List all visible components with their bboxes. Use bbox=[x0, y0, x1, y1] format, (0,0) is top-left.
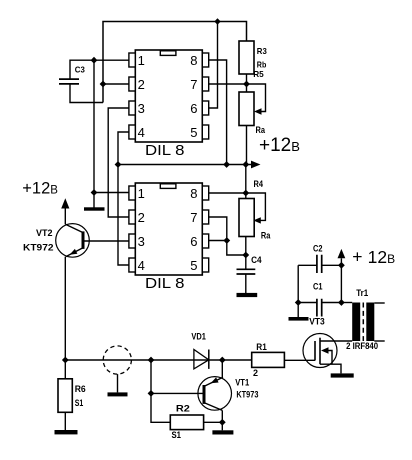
capacitor C4 bbox=[237, 269, 256, 274]
MOSFET VT3 source wire bbox=[320, 364, 341, 373]
node junction rail x226.6 bbox=[223, 161, 230, 168]
wire R4 vertical from rail to Ra2 top bbox=[245, 165, 247, 199]
svg-text:8: 8 bbox=[190, 53, 197, 68]
transistor VT1 collector diagonal bbox=[204, 403, 222, 411]
node junction C2 right bbox=[338, 262, 345, 269]
svg-text:4: 4 bbox=[138, 125, 145, 140]
svg-text:R5: R5 bbox=[253, 69, 264, 79]
transistor VT2 emitter arrow bbox=[70, 249, 78, 255]
resistor R1 bbox=[252, 352, 285, 367]
capacitor C1 bbox=[317, 299, 322, 317]
node junction above C4 bbox=[242, 252, 249, 259]
node junction bottom rail x151 bbox=[148, 357, 155, 364]
IC U2 pin 7 bbox=[202, 210, 208, 224]
+12V rail arrow bbox=[251, 161, 261, 169]
svg-text:C4: C4 bbox=[251, 255, 262, 265]
wire x151 down to R2 bbox=[151, 360, 170, 422]
svg-text:VD1: VD1 bbox=[191, 331, 206, 341]
IC U1 pin 4 bbox=[129, 125, 135, 139]
ground bar under VT3 source bbox=[331, 373, 354, 377]
capacitor C2 bbox=[317, 255, 322, 273]
wire C2 right to +12 vertical bbox=[322, 264, 342, 266]
IC U2 pin 5 bbox=[202, 258, 208, 272]
IC U2 DIL8 body bbox=[135, 183, 202, 275]
svg-text:Tr1: Tr1 bbox=[356, 288, 368, 298]
svg-text:6: 6 bbox=[190, 234, 197, 249]
wire bottom signal rail bbox=[65, 359, 251, 361]
MOSFET VT3 body arrow bbox=[321, 347, 329, 353]
wire secondary bottom stub bbox=[374, 340, 384, 342]
wire R2 to VT1 collector junction bbox=[204, 421, 223, 423]
microphone/jack dashed circle bbox=[103, 346, 131, 374]
wire C3 top plate to IC1 pin1 bbox=[70, 60, 129, 79]
IC U2 pin 4 bbox=[129, 258, 135, 272]
svg-text:VT1: VT1 bbox=[235, 377, 249, 387]
transistor VT1 circle bbox=[198, 377, 232, 411]
wire mic to ground bbox=[117, 374, 119, 392]
svg-text:KT972: KT972 bbox=[23, 242, 54, 252]
svg-text:C2: C2 bbox=[313, 243, 323, 253]
ground bar under C1/C2 bbox=[289, 317, 309, 321]
svg-text:KT973: KT973 bbox=[236, 390, 258, 400]
svg-text:2: 2 bbox=[253, 368, 258, 378]
transistor VT1 emitter arrow bbox=[211, 377, 219, 383]
transistor VT1 base bar bbox=[203, 385, 206, 404]
wire +12V arrow to VT2 collector bbox=[64, 209, 66, 225]
node junction top wire x217.5 bbox=[214, 18, 220, 24]
svg-text:R4: R4 bbox=[254, 179, 264, 189]
IC U1 pin 7 bbox=[202, 77, 208, 91]
wire IC1 pin4 down to IC2 pin4 through rail junction bbox=[118, 132, 129, 265]
ground bar under R6 bbox=[55, 430, 78, 434]
node junction bottom rail x65 bbox=[62, 357, 69, 364]
wire IC1 pin8 right then down to +12 rail bbox=[209, 60, 227, 165]
transistor VT2 base bar bbox=[82, 231, 85, 249]
ground bar under C4 bbox=[237, 293, 258, 297]
svg-text:5: 5 bbox=[190, 258, 197, 273]
node junction IC2 pin1 wire bbox=[91, 189, 98, 196]
potentiometer Ra (lower) bbox=[239, 199, 254, 237]
wire IC2 pin8 to R4 junction bbox=[209, 192, 246, 194]
svg-text:3: 3 bbox=[138, 101, 145, 116]
svg-text:Ra: Ra bbox=[256, 125, 266, 135]
IC U2 pin 6 bbox=[202, 234, 208, 248]
svg-text:3: 3 bbox=[138, 234, 145, 249]
svg-text:VT2: VT2 bbox=[36, 228, 53, 238]
ground bar under VT1 bbox=[212, 430, 233, 434]
wire C1 right bbox=[322, 302, 342, 304]
wire R6 to ground bbox=[64, 412, 66, 430]
wire +12V rail bbox=[118, 164, 252, 166]
node junction C1 right / transformer bbox=[338, 299, 345, 306]
IC U1 pin 6 bbox=[202, 101, 208, 115]
svg-text:6: 6 bbox=[190, 101, 197, 116]
wire C4 to ground bbox=[245, 274, 247, 293]
node junction VT1 base wire bbox=[148, 390, 155, 397]
svg-text:C3: C3 bbox=[75, 64, 85, 74]
svg-text:2: 2 bbox=[138, 77, 145, 92]
transistor VT1 emitter diagonal bbox=[204, 377, 223, 386]
wire R1 to VT3 gate bbox=[284, 359, 315, 361]
wire from top junction down to IC1 pin6 bbox=[209, 22, 218, 109]
svg-text:2 IRF840: 2 IRF840 bbox=[346, 341, 378, 351]
IC U2 pin 8 bbox=[202, 186, 208, 200]
node junction IC2 pin8 / Ra2 bbox=[242, 190, 249, 197]
IC U2 notch bbox=[160, 184, 176, 189]
svg-text:1: 1 bbox=[138, 186, 145, 201]
+12V up arrow right bbox=[338, 249, 346, 258]
wire vertical x94 from pin1 wire to IC2 pin1 and ground bbox=[94, 60, 129, 208]
MOSFET VT3 channel bar bbox=[319, 338, 321, 365]
wire VT1 collector to junction bbox=[221, 410, 223, 422]
IC U1 pin 2 bbox=[129, 77, 135, 91]
wire C2 left to vertical bbox=[298, 264, 317, 266]
svg-text:8: 8 bbox=[190, 186, 197, 201]
node junction under R3 bbox=[243, 81, 250, 88]
node junction pin2 wire x103 bbox=[100, 81, 107, 88]
resistor R3 bbox=[239, 41, 254, 74]
MOSFET VT3 circle bbox=[303, 334, 337, 368]
svg-text:1: 1 bbox=[138, 53, 145, 68]
node junction VT1 collector bbox=[219, 419, 226, 426]
svg-text:+12В: +12В bbox=[259, 135, 300, 156]
diode VD1 triangle bbox=[194, 350, 209, 369]
transformer Tr1 secondary winding bbox=[366, 303, 374, 342]
svg-text:C1: C1 bbox=[313, 282, 323, 292]
wire left vertical C2/C1 to ground bbox=[297, 265, 299, 317]
potentiometer Ra upper wiper arrow bbox=[254, 108, 262, 114]
transistor VT2 emitter diagonal bbox=[66, 248, 83, 257]
potentiometer Ra lower wiper arrow bbox=[253, 217, 260, 223]
svg-text:+: + bbox=[352, 247, 362, 267]
svg-text:S1: S1 bbox=[75, 398, 84, 408]
IC U2 pin 2 bbox=[129, 210, 135, 224]
svg-text:4: 4 bbox=[138, 258, 145, 273]
wire to VT1 base bbox=[151, 392, 204, 394]
diode VD1 cathode bar bbox=[208, 350, 210, 369]
svg-text:R6: R6 bbox=[75, 384, 86, 394]
wire Ra2 bottom to C4 junction bbox=[245, 237, 247, 270]
wire IC1 pin2 from x103 vertical bbox=[103, 83, 129, 85]
IC U2 pin 1 bbox=[129, 186, 135, 200]
wire +12V right vertical bbox=[340, 258, 342, 302]
svg-text:DIL 8: DIL 8 bbox=[145, 142, 185, 159]
svg-text:7: 7 bbox=[190, 210, 197, 225]
MOSFET VT3 drain wire to transformer bbox=[320, 340, 352, 342]
transistor VT2 collector diagonal bbox=[65, 224, 83, 232]
resistor R6 bbox=[58, 379, 72, 413]
wire C1 left bbox=[298, 302, 317, 304]
resistor R2 bbox=[170, 415, 203, 430]
transformer Tr1 core dashed bbox=[362, 303, 364, 342]
ground bar under mic bbox=[108, 392, 128, 396]
IC U1 pin 1 bbox=[129, 53, 135, 67]
svg-text:S1: S1 bbox=[172, 430, 182, 440]
wire R6 top stub bbox=[64, 360, 66, 379]
wire VT1 emitter up to rail bbox=[221, 360, 223, 377]
wire VT2 base to IC2 pin3 bbox=[83, 240, 129, 242]
wire R3 bottom to Ra top bbox=[246, 74, 248, 92]
wire IC1 pin7 to R3 bottom junction and tap of Ra bbox=[209, 84, 266, 112]
potentiometer Ra (upper) bbox=[239, 92, 254, 126]
IC U2 pin 3 bbox=[129, 234, 135, 248]
svg-text:R1: R1 bbox=[256, 342, 267, 352]
wire IC2 pin7 down and across to C4 junction bbox=[209, 217, 246, 255]
svg-text:R2: R2 bbox=[176, 404, 190, 414]
wire VT2 emitter down to bottom rail bbox=[64, 257, 66, 360]
wire Ra bottom to +12 rail bbox=[246, 126, 248, 165]
wire IC2 pin6 to vertical bbox=[209, 240, 227, 242]
node junction C1 left bbox=[295, 299, 302, 306]
svg-text:R3: R3 bbox=[257, 46, 267, 56]
svg-text:Ra: Ra bbox=[261, 231, 271, 241]
node junction after VD1 bbox=[219, 357, 226, 364]
MOSFET VT3 body link bbox=[328, 351, 332, 365]
IC U1 notch bbox=[160, 51, 176, 56]
wire VT1 collector junction to ground bbox=[221, 422, 223, 430]
node junction pin1 wire x94 bbox=[91, 57, 98, 64]
node junction rail x245.8 bbox=[242, 161, 249, 168]
node junction pin6/pin7 vertical bbox=[223, 237, 230, 244]
node junction rail x118 bbox=[115, 161, 122, 168]
transistor VT2 circle bbox=[56, 224, 90, 258]
+12V up arrow left bbox=[61, 198, 69, 208]
IC U1 pin 8 bbox=[202, 53, 208, 67]
svg-text:5: 5 bbox=[190, 125, 197, 140]
wire junction to transformer primary top bbox=[341, 302, 352, 304]
svg-text:7: 7 bbox=[190, 77, 197, 92]
svg-text:2: 2 bbox=[138, 210, 145, 225]
wire C3 bottom plate to top-rail vertical bbox=[70, 84, 103, 103]
IC U1 DIL8 body bbox=[135, 50, 202, 142]
IC U1 pin 3 bbox=[129, 101, 135, 115]
wire secondary top stub bbox=[374, 302, 384, 304]
svg-text:DIL 8: DIL 8 bbox=[145, 275, 185, 292]
svg-text:VT3: VT3 bbox=[309, 317, 325, 327]
MOSFET VT3 gate bar bbox=[314, 341, 316, 361]
capacitor C3 bbox=[59, 79, 79, 84]
IC U1 pin 5 bbox=[202, 125, 208, 139]
transformer Tr1 primary winding bbox=[352, 303, 360, 342]
ground bar left bbox=[84, 207, 105, 210]
wire Ra lower tap bbox=[246, 193, 266, 220]
wire IC1 pin3 down to IC2 pin2 bbox=[108, 108, 129, 217]
wire top rail from C3 bottom corner up and across to R3 bbox=[103, 22, 247, 103]
